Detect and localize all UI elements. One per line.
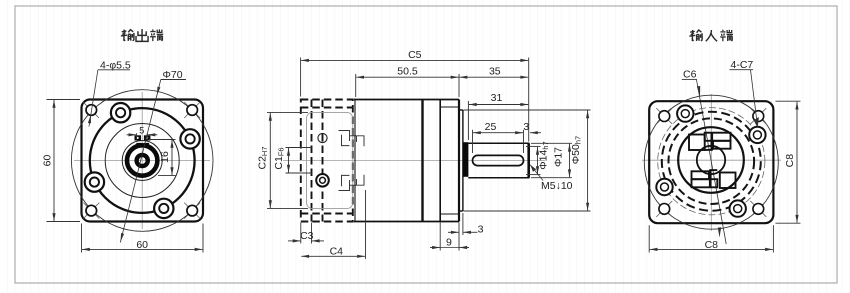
svg-text:C4: C4 [330, 246, 344, 258]
svg-text:3: 3 [478, 223, 484, 235]
dim C2H7 [267, 112, 308, 208]
hidden circle outer dashed [662, 112, 761, 211]
char 端 [150, 29, 163, 41]
dim 35 [460, 76, 529, 78]
dim C1F6 [286, 148, 313, 174]
corner hole BR [184, 203, 200, 219]
corner hole TL [83, 102, 99, 118]
svg-text:C8: C8 [784, 154, 796, 168]
motor boss outline (thin gray) [307, 112, 353, 208]
char 端 [720, 30, 733, 42]
svg-text:M5↓10: M5↓10 [541, 180, 573, 192]
dim 25 [473, 130, 524, 153]
dim phi14h7 [526, 146, 541, 174]
svg-text:C8: C8 [705, 239, 719, 251]
pitch circle C6 [644, 95, 778, 229]
flange square [82, 100, 204, 222]
svg-text:25: 25 [485, 121, 497, 133]
hidden circle inner dashed [669, 118, 755, 204]
svg-text:3: 3 [523, 121, 529, 133]
corner hole BL [656, 201, 672, 217]
coupling blocks [689, 133, 736, 188]
svg-text:Φ17: Φ17 [553, 147, 565, 167]
svg-text:Φ14h7: Φ14h7 [538, 141, 551, 169]
input bolt hole NE [749, 127, 765, 143]
dim 50.5 [356, 74, 459, 97]
shaft thick ring [127, 145, 157, 175]
dim 9 [430, 223, 469, 251]
svg-text:35: 35 [489, 66, 501, 78]
tilted centerline with arrow [697, 80, 727, 244]
dim C3 [288, 223, 324, 244]
dim 3 shaft end [530, 132, 541, 134]
axis centerline [283, 160, 545, 162]
corner hole TR [184, 102, 200, 118]
input bolt hole SW [656, 179, 672, 195]
char 输 [689, 30, 702, 41]
centerline vertical [141, 92, 143, 229]
svg-text:Φ70: Φ70 [163, 69, 183, 81]
bolt hole left [85, 172, 104, 191]
shaft bore ring [137, 155, 148, 166]
svg-text:5: 5 [139, 126, 144, 136]
dim phi50h7 [464, 110, 591, 211]
svg-text:C3: C3 [300, 230, 314, 242]
dim 5 keyway [127, 133, 158, 139]
pilot boss phi50 [459, 110, 463, 211]
pitch circle phi70 [71, 90, 213, 232]
leader 4-phi5.5 [89, 70, 98, 127]
keyway slot [473, 155, 524, 165]
dim C4 [301, 190, 365, 259]
centerlines [710, 94, 712, 231]
dim C5 [301, 58, 529, 142]
svg-text:Φ50h7: Φ50h7 [570, 136, 583, 164]
motor adapter plate (phantom dashed) [301, 100, 353, 222]
bolt hole right [180, 129, 199, 148]
dim 31 [468, 101, 528, 140]
bolt hole top [111, 103, 130, 122]
dim 60 bottom [82, 224, 204, 253]
output shaft [468, 143, 529, 177]
svg-text:31: 31 [491, 92, 503, 104]
gearbox body [354, 100, 459, 222]
bolt pitch circle thin [658, 108, 765, 215]
char 入 [706, 30, 717, 41]
coupling outer circle [678, 127, 744, 193]
shaft outer thin circle [122, 141, 162, 181]
input bolt hole NW [677, 105, 693, 121]
char 输 [121, 30, 134, 41]
char 出 [136, 29, 148, 41]
svg-text:C6: C6 [683, 69, 697, 81]
spacer ring (black bar) [463, 142, 469, 177]
body circle [90, 108, 195, 213]
leader phi70 long tilted line [120, 80, 161, 243]
svg-text:60: 60 [41, 155, 53, 167]
svg-text:4-C7: 4-C7 [731, 59, 754, 71]
plate screw lower [316, 174, 329, 187]
dim C8 right [776, 101, 801, 223]
dim 16 [149, 140, 176, 176]
input bolt hole SE [730, 200, 746, 216]
svg-text:C2H7: C2H7 [256, 146, 269, 169]
dim 3 boss [448, 213, 478, 235]
bolt hole bottom [154, 199, 173, 218]
svg-text:C1F6: C1F6 [273, 147, 286, 169]
centerline horizontal [74, 160, 210, 162]
svg-text:16: 16 [159, 151, 171, 163]
flange square [649, 101, 773, 223]
svg-text:9: 9 [446, 236, 452, 248]
dim C8 bottom [649, 225, 773, 252]
title 输入端 strokes [689, 30, 733, 42]
corner hole TR [750, 108, 766, 124]
corner hole BR [750, 201, 766, 217]
coupling claw bottom [339, 175, 365, 191]
dim 60 left [47, 100, 81, 222]
corner hole TL [656, 108, 672, 124]
dim phi17 [531, 143, 572, 177]
coupling bore [697, 146, 725, 174]
corner hole BL [83, 203, 99, 219]
svg-text:60: 60 [136, 239, 148, 251]
coupling claw top [339, 131, 365, 147]
title 输出端 (drawn strokes) [121, 29, 163, 41]
svg-text:50.5: 50.5 [397, 66, 418, 78]
svg-text:C5: C5 [408, 49, 422, 61]
inner circle [105, 124, 179, 198]
plate hole upper [318, 133, 327, 142]
keyway cluster [135, 135, 151, 145]
